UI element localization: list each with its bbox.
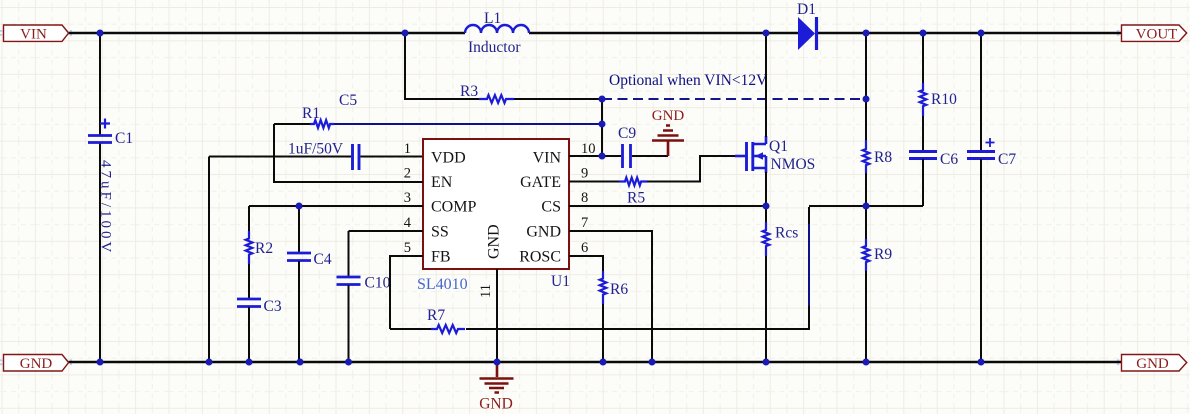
pin name FB	[431, 249, 451, 266]
pin number 10	[581, 141, 596, 157]
svg-text:L1: L1	[484, 10, 501, 27]
svg-text:SL4010: SL4010	[417, 276, 468, 293]
svg-text:C9: C9	[618, 125, 636, 142]
wire R8 column from top rail	[865, 33, 867, 140]
svg-text:C4: C4	[314, 251, 332, 268]
inductor L1	[465, 10, 529, 56]
wire Q1 source to CS node	[765, 172, 767, 206]
svg-text:VIN: VIN	[533, 150, 562, 167]
wire GATE pin9 row	[569, 156, 735, 182]
pin name COMP	[431, 199, 476, 216]
resistor R1	[302, 105, 334, 128]
wire ROSC pin6 row	[569, 256, 603, 271]
node connectivity marks VOUT port	[1117, 31, 1124, 35]
svg-text:GND: GND	[526, 224, 561, 241]
node connectivity marks GND left port	[0, 360, 72, 364]
svg-text:GND: GND	[479, 396, 513, 413]
svg-text:7: 7	[581, 215, 588, 231]
node connectivity marks GND right port	[1117, 360, 1124, 364]
svg-text:GND: GND	[652, 108, 685, 124]
svg-text:R2: R2	[255, 240, 273, 257]
ground symbol bottom	[479, 362, 513, 413]
label Optional when VIN lt 12V	[609, 72, 768, 89]
wire COMP pin3 row	[249, 205, 423, 207]
svg-text:R10: R10	[931, 91, 957, 108]
svg-text:GND: GND	[20, 356, 53, 372]
resistor R6	[600, 271, 629, 362]
ground symbol near C9	[652, 108, 685, 156]
resistor R9	[863, 206, 893, 362]
junction dots bottom rail	[97, 359, 985, 366]
wire FB feedback run to divider	[466, 206, 923, 329]
resistor Rcs	[763, 206, 799, 362]
svg-text:C10: C10	[365, 275, 391, 292]
svg-text:CS: CS	[541, 199, 561, 216]
capacitor C6	[909, 151, 958, 206]
svg-text:1uF/50V: 1uF/50V	[288, 141, 344, 158]
svg-text:C5: C5	[339, 92, 357, 109]
svg-text:R6: R6	[610, 281, 628, 298]
wire navy R1 to VIN node	[334, 123, 602, 125]
svg-text:C1: C1	[115, 130, 133, 147]
junction dots VIN node column	[599, 96, 870, 160]
wire C1 column	[99, 33, 101, 362]
svg-text:47uF/100V: 47uF/100V	[98, 160, 114, 255]
svg-text:R7: R7	[427, 307, 445, 324]
svg-text:U1: U1	[551, 273, 570, 290]
capacitor C3	[237, 264, 282, 362]
wire optional dashed link	[602, 98, 866, 100]
wire bottom rail GND	[69, 361, 1122, 363]
pin name VIN	[533, 150, 562, 167]
wire CS pin8 row	[569, 205, 766, 207]
wire navy feedback vertical segment	[808, 224, 810, 306]
svg-text:C3: C3	[264, 298, 282, 315]
svg-text:R1: R1	[302, 105, 320, 122]
svg-text:SS: SS	[431, 224, 449, 241]
wire VIN pin10 row	[569, 155, 621, 157]
pin number 11	[478, 284, 494, 298]
resistor R3	[460, 83, 514, 103]
pin name ROSC	[519, 249, 561, 266]
ic U1 SL4010 body	[417, 139, 570, 293]
resistor R8	[863, 140, 893, 206]
svg-text:R8: R8	[874, 149, 892, 166]
svg-text:VDD: VDD	[431, 150, 466, 167]
capacitor C1	[88, 119, 133, 148]
capacitor C4	[287, 206, 332, 362]
svg-text:9: 9	[581, 166, 588, 182]
svg-text:EN: EN	[431, 174, 453, 191]
svg-text:FB: FB	[431, 249, 451, 266]
pin number 4	[404, 215, 412, 231]
wire GND pin11 column	[496, 269, 498, 362]
svg-text:ROSC: ROSC	[519, 249, 561, 266]
junction dots middle nodes	[296, 203, 870, 210]
wire EN pin2 row with R1 branch	[274, 124, 423, 182]
svg-text:Rcs: Rcs	[775, 225, 798, 242]
wire C5 ground column	[208, 157, 210, 363]
svg-text:VIN: VIN	[20, 26, 47, 42]
pin name GND	[526, 224, 561, 241]
pin number 3	[404, 190, 411, 206]
wire Q1 drain to top rail	[765, 33, 767, 137]
svg-text:6: 6	[581, 240, 588, 256]
resistor R7	[390, 307, 465, 333]
wire SS pin4 row	[349, 230, 424, 232]
svg-text:1: 1	[404, 141, 411, 157]
svg-text:R5: R5	[627, 190, 645, 207]
svg-text:VOUT: VOUT	[1136, 26, 1178, 42]
pin name VDD	[431, 150, 466, 167]
svg-text:3: 3	[404, 190, 411, 206]
svg-text:C6: C6	[940, 151, 958, 168]
wire VDD pin1 row	[209, 156, 423, 158]
wire R3 branch from top rail	[405, 33, 602, 99]
junction dots top rail	[97, 30, 985, 37]
transistor Q1 NMOS	[735, 136, 815, 173]
svg-text:2: 2	[404, 166, 411, 182]
svg-text:Inductor: Inductor	[468, 39, 521, 56]
svg-text:GND: GND	[486, 224, 503, 259]
pin name GND vertical pin11	[486, 224, 503, 259]
pin number 5	[404, 240, 411, 256]
svg-text:C7: C7	[998, 151, 1016, 168]
pin number 1	[404, 141, 411, 157]
svg-text:NMOS: NMOS	[771, 156, 816, 173]
svg-text:GATE: GATE	[520, 174, 561, 191]
port GND right	[1122, 355, 1187, 373]
pin number 9	[581, 166, 588, 182]
svg-text:4: 4	[404, 215, 412, 231]
wire FB pin5 row	[390, 256, 423, 329]
capacitor C10	[337, 231, 391, 362]
resistor R5	[619, 178, 647, 207]
capacitor C5	[288, 92, 359, 170]
svg-text:R3: R3	[460, 83, 478, 100]
pin number 8	[581, 190, 588, 206]
svg-text:5: 5	[404, 240, 411, 256]
pin number 2	[404, 166, 411, 182]
capacitor C7	[967, 33, 1016, 362]
resistor R2	[246, 206, 273, 264]
svg-text:R9: R9	[874, 246, 892, 263]
pin name EN	[431, 174, 453, 191]
svg-text:GND: GND	[1136, 356, 1169, 372]
resistor R10	[920, 83, 957, 151]
pin name GATE	[520, 174, 561, 191]
pin name SS	[431, 224, 449, 241]
svg-text:11: 11	[478, 284, 494, 298]
port VIN	[4, 25, 69, 42]
node connectivity marks VIN port	[0, 31, 72, 35]
wire GND pin7 row	[569, 231, 652, 362]
port GND left	[4, 355, 69, 373]
value label 47uF/100V	[98, 160, 114, 255]
capacitor C9	[618, 125, 668, 168]
wire top rail VIN segment	[69, 32, 1122, 34]
wire VIN node vertical	[601, 99, 603, 156]
pin number 7	[581, 215, 588, 231]
svg-text:8: 8	[581, 190, 588, 206]
svg-text:Optional when VIN<12V: Optional when VIN<12V	[609, 72, 768, 89]
port VOUT	[1122, 25, 1187, 42]
svg-text:COMP: COMP	[431, 199, 476, 216]
pin name CS	[541, 199, 561, 216]
svg-text:Q1: Q1	[769, 138, 788, 155]
pin number 6	[581, 240, 588, 256]
diode D1	[797, 1, 817, 50]
wire R10 column from top rail	[922, 33, 924, 83]
svg-text:D1: D1	[797, 1, 816, 18]
svg-text:10: 10	[581, 141, 596, 157]
